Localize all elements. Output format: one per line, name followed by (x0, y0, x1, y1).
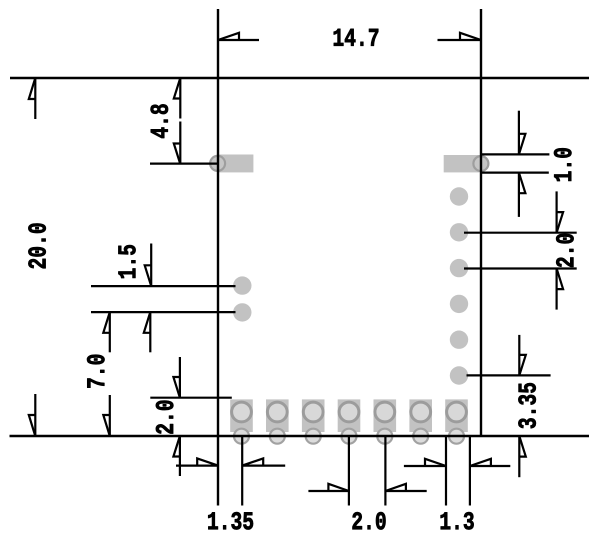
dimension 1.0 extension lines (481, 154, 549, 172)
dimension 3.35 stems and arrows (519, 335, 526, 477)
dot D2 (450, 223, 468, 241)
pad P8 top-left (210, 155, 253, 173)
dimension 2.0 right label (556, 234, 573, 267)
bottom pad B7 (445, 399, 468, 443)
dimension 20.0 stems and arrows (29, 78, 36, 436)
dimension 2.0 left label (156, 401, 173, 434)
dimension 2.0 right extension lines (464, 233, 577, 269)
dimension 1.3 extension lines (446, 436, 470, 506)
dimension 2.0 bottom label (353, 512, 386, 529)
dimension 14.7 arrow left (218, 33, 239, 40)
dot D6 (450, 366, 468, 384)
bottom pad B2 (266, 399, 289, 443)
dimension 1.3 lines and arrows (404, 459, 510, 466)
dimension 4.8 label (151, 104, 168, 138)
module right edge (480, 9, 482, 436)
dot D3 (450, 259, 468, 277)
dimension 1.35 lines and arrows (176, 458, 285, 465)
dimension 14.7 line (218, 39, 481, 41)
bottom pad B5 (374, 399, 397, 443)
dimension 1.5 label (119, 245, 136, 278)
module left edge (217, 9, 219, 506)
dimension 1.0 stems and arrows (519, 111, 526, 217)
bottom pad B4 (338, 399, 361, 443)
module top edge (10, 77, 589, 79)
left dot L1 (233, 276, 251, 294)
dimension 2.0 bottom extension lines (349, 436, 386, 506)
dimension 14.7 arrow right (460, 33, 481, 40)
dimension 1.3 label (441, 512, 474, 529)
dimension 2.0 right stems and arrows (557, 191, 564, 309)
dimension 1.35 label (208, 512, 253, 529)
dimension 3.35 extension line (467, 374, 551, 376)
dimension 14.7 label (334, 29, 378, 46)
dimension 2.0 left extension line (150, 397, 232, 399)
dimension 4.8 stems and arrows (174, 78, 181, 164)
bottom pad B3 (302, 399, 325, 443)
dimension 4.8 extension line (150, 163, 218, 165)
dimension 2.0 left stems and arrows (173, 357, 180, 476)
dimension 2.0 bottom lines and arrows (308, 484, 426, 491)
dimension 20.0 label (28, 223, 45, 268)
pad P9 top-right (444, 155, 489, 172)
dimension 1.5 extension lines (91, 286, 236, 312)
bottom pad B6 (409, 399, 432, 443)
dimension 3.35 label (518, 383, 535, 428)
dimension 1.5 stems and arrows (144, 244, 151, 353)
dot column right: dot D1 (450, 187, 468, 205)
module bottom edge (10, 435, 589, 437)
bottom pad B1 (230, 399, 253, 443)
dimension 1.35 extension line (241, 436, 243, 506)
left dot L2 (233, 303, 251, 321)
dimension 7.0 stems and arrows (103, 312, 110, 436)
dimension 1.0 label (554, 148, 571, 181)
dot D5 (450, 331, 468, 349)
dot D4 (450, 295, 468, 313)
dimension 7.0 label (87, 355, 104, 388)
